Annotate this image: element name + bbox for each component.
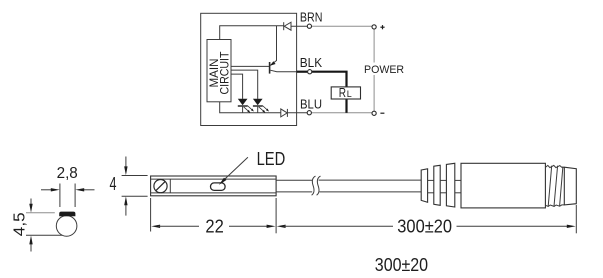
cable segment 2 [319,179,422,181]
connector boot rib 3 [446,163,454,207]
svg-text:POWER: POWER [364,64,404,76]
main circuit block U1 [207,40,231,102]
wire: D1 to BRN terminal [291,25,307,27]
connector thread section [545,165,564,167]
side view: screw head [154,180,167,193]
side view: LED window pill [211,183,226,191]
dim 22 line and arrows [151,225,160,228]
wire: main circuit to LED2 drop [231,70,258,99]
end view: black sensing cap [59,212,75,217]
indicator LED2 (filled, with emission arrows) [253,99,263,106]
svg-text:R: R [339,86,346,100]
diode D2 (BLU line, cathode right) [281,109,287,117]
svg-text:22: 22 [205,216,223,237]
connector boot rib 2 [434,165,440,205]
terminal BLU [307,111,311,115]
dim 300 extension line right [575,205,577,233]
boot groove 2 [440,179,446,181]
Q1 collector lead to BLK line [270,70,296,72]
plus sign [380,26,384,28]
side view: body inner chamfer lines [151,178,277,180]
boot groove 1 [428,179,434,181]
wire: main circuit to LED1 drop [231,74,243,99]
cable segment 1 [276,179,312,181]
dim 300+-20 line and arrows [277,225,286,228]
wire: internal 0V rail from main circuit bottom to diode D2 [220,102,281,113]
boot groove 3 [455,179,461,181]
terminal BRN [307,24,311,28]
cable break squiggle [312,176,316,195]
dim 4 line and arrows [125,157,127,168]
svg-text:300±20: 300±20 [375,254,428,275]
wire: BRN lead out to + [312,25,372,27]
load resistor RL [345,99,347,113]
svg-text:BLK: BLK [300,56,323,70]
svg-text:BRN: BRN [300,11,323,25]
terminal + [372,25,376,29]
dim 4 extension lines [122,175,148,177]
wire: internal +V rail from main circuit top to diode D1 [220,26,284,40]
terminal - [372,111,376,115]
connector boot rib 1 [421,169,427,203]
diode D1 (reverse protection, BRN line, cathode left) [284,22,291,30]
power supply vertical wire [373,29,375,111]
svg-text:4: 4 [110,173,117,194]
svg-text:LED: LED [257,148,286,169]
LED callout line and arrow [223,157,248,181]
svg-text:4,5: 4,5 [12,212,29,236]
wire: base from main circuit [231,65,269,67]
wire: BLK bold lead to load [297,71,308,73]
minus sign [380,112,384,114]
terminal BLK [308,70,312,74]
Q1 emitter lead with arrow to +V rail [270,26,276,66]
dim 2,8 extension lines [59,184,61,208]
svg-text:2,8: 2,8 [57,165,78,182]
outer sensor enclosure box [201,13,297,125]
svg-text:CIRCUIT: CIRCUIT [217,51,231,95]
label POWER [363,63,406,76]
dim 22 extension lines [150,198,152,232]
side view: sensor body outline [151,176,277,196]
wire: D2 to BLU terminal [287,112,307,114]
svg-text:BLU: BLU [300,97,322,111]
svg-text:L: L [347,89,352,99]
dim 2,8 arrows [41,189,52,191]
dim 4,5 line and arrows [30,199,32,205]
svg-text:300±20: 300±20 [397,216,452,237]
end view: sensor head circle [56,216,77,237]
transistor Q1 (PNP output) base bar [269,62,271,74]
dim 4,5 extension lines [26,212,55,214]
indicator LED1 (filled, with emission arrows) [238,99,248,106]
connector tip [564,167,576,205]
side view: screw compartment divider [169,179,171,193]
connector main body [461,163,545,208]
wire: BLU lead out to - [312,112,373,114]
